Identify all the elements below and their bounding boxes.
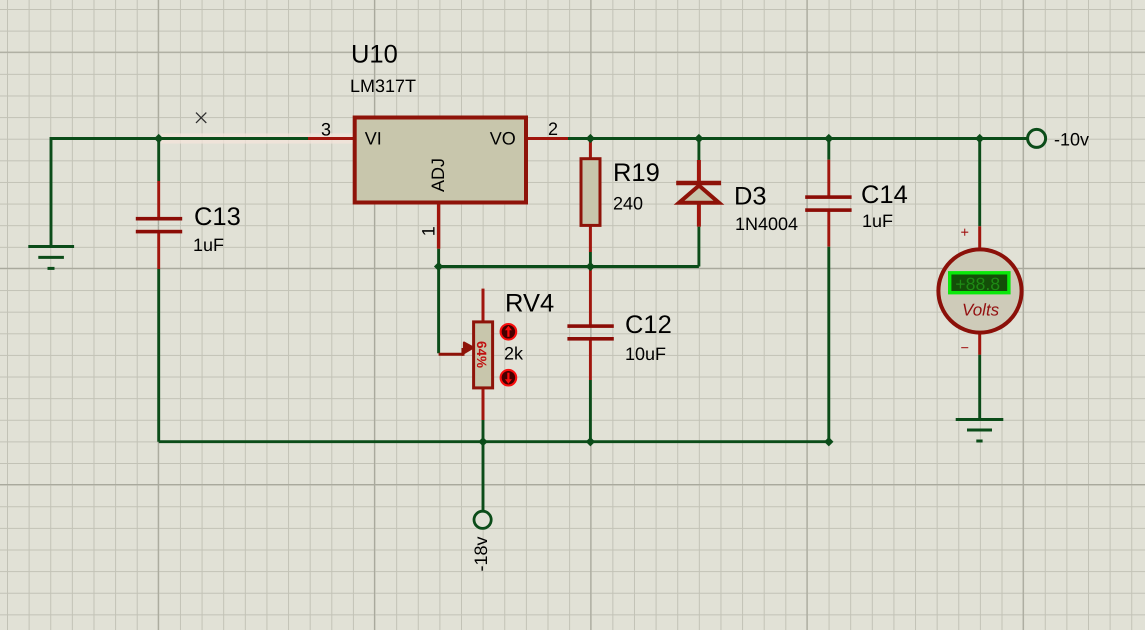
diode D3: [676, 183, 798, 235]
svg-text:3: 3: [321, 120, 331, 140]
svg-text:RV4: RV4: [505, 290, 554, 318]
svg-text:R19: R19: [613, 159, 660, 187]
power terminal -18v: [471, 511, 491, 571]
svg-text:VI: VI: [365, 129, 382, 149]
resistor R19: [581, 159, 660, 226]
node junction (158.7,138.5): [154, 134, 163, 143]
RV4 up button: [501, 324, 517, 340]
no-connect X mark: [196, 113, 206, 123]
svg-text:−: −: [961, 341, 969, 357]
wire pin 3 red stub: [308, 137, 355, 140]
voltmeter: [938, 225, 1021, 357]
capacitor C12: [567, 311, 671, 364]
wire D3 top: [697, 139, 700, 161]
svg-text:-10v: -10v: [1054, 130, 1089, 150]
svg-text:ADJ: ADJ: [428, 158, 448, 192]
svg-text:1uF: 1uF: [862, 211, 893, 231]
svg-text:VO: VO: [490, 129, 516, 149]
svg-text:D3: D3: [734, 183, 767, 211]
svg-text:C13: C13: [194, 203, 241, 231]
svg-text:LM317T: LM317T: [350, 76, 416, 96]
node junction (828.8,138.5): [824, 134, 833, 143]
svg-text:C12: C12: [625, 311, 672, 339]
svg-text:+88.8: +88.8: [955, 274, 1000, 294]
wire highlight halo (selected net): [161, 133, 355, 143]
svg-text:64%: 64%: [474, 341, 489, 368]
output terminal -10v: [1028, 129, 1089, 149]
wire ADJ rail green: [439, 265, 699, 268]
wire output rail green: [568, 137, 1027, 140]
svg-text:C14: C14: [861, 181, 908, 209]
wire C13 branch: [157, 139, 160, 442]
svg-text:1N4004: 1N4004: [735, 214, 798, 234]
wire R19 bottom: [589, 225, 592, 266]
svg-text:1: 1: [419, 226, 439, 236]
svg-text:Volts: Volts: [962, 301, 1000, 320]
node junction (590.4,441.7): [586, 437, 595, 446]
wire pin 2 red stub: [526, 137, 569, 140]
RV4 down button: [501, 370, 517, 386]
wire -18v terminal stem: [482, 442, 485, 511]
wire voltmeter top: [978, 139, 981, 250]
wire wiper branch: [437, 267, 440, 354]
capacitor C14: [805, 181, 908, 231]
wire D3 bottom: [697, 204, 701, 267]
wire top rail green: [51, 139, 308, 246]
wire R19 top: [589, 141, 592, 159]
wire bottom rail green: [159, 440, 829, 443]
svg-text:240: 240: [613, 194, 643, 214]
svg-text:10uF: 10uF: [625, 344, 666, 364]
wire C12 branch: [589, 267, 592, 442]
ground right: [956, 420, 1004, 442]
potentiometer RV4: [439, 289, 555, 388]
node junction (698.9,138.5): [694, 134, 703, 143]
node junction (589.?,138.5): [586, 134, 595, 143]
node junction (828.8,441.7): [824, 437, 833, 446]
svg-text:2k: 2k: [504, 344, 524, 364]
svg-text:1uF: 1uF: [193, 235, 224, 255]
svg-text:U10: U10: [351, 41, 398, 69]
capacitor C13: [136, 203, 241, 255]
node junction (979.7,138.5): [975, 134, 984, 143]
regulator U10 body: [355, 118, 526, 203]
wire ADJ pin: [437, 203, 440, 267]
wire C14 branch: [827, 139, 830, 442]
node junction (590.4,266.5): [586, 262, 595, 271]
ground left: [28, 247, 74, 269]
svg-text:+: +: [961, 225, 969, 241]
node junction (483,441.7): [478, 437, 487, 446]
wire voltmeter bottom: [978, 334, 981, 420]
svg-text:2: 2: [548, 119, 558, 139]
svg-text:-18v: -18v: [471, 536, 491, 571]
wire RV4 bottom: [482, 388, 485, 442]
node junction (438.6,266.5): [434, 262, 443, 271]
